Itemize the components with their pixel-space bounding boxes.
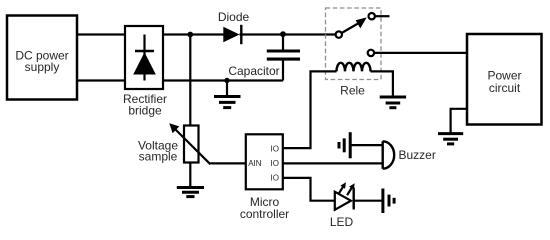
diode D1 — [223, 25, 241, 44]
svg-text:IO: IO — [271, 145, 279, 154]
wire rectifier top output — [163, 33, 224, 35]
node junction dot (rail ground tap) — [224, 78, 229, 83]
svg-text:LED: LED — [330, 215, 354, 229]
LED arrow 1 — [338, 187, 343, 194]
potentiometer (voltage sample) — [138, 123, 210, 186]
wire coil right to ground — [371, 71, 393, 96]
svg-text:Buzzer: Buzzer — [399, 148, 436, 162]
relay coil L1 — [337, 63, 371, 98]
buzzer BZ1 — [383, 141, 436, 168]
svg-text:IO: IO — [271, 159, 279, 168]
rectifier diode D (inside bridge) — [143, 35, 145, 81]
wire micro IO2 to buzzer — [283, 162, 382, 164]
node junction dot (capacitor tap) — [280, 31, 286, 37]
wire PSU bottom to rectifier bridge — [77, 79, 126, 81]
capacitor C1 — [228, 34, 300, 80]
svg-text:bridge: bridge — [128, 104, 162, 118]
DC power supply box — [7, 16, 77, 100]
svg-text:circuit: circuit — [489, 81, 521, 95]
rectifier bridge box — [123, 26, 167, 118]
relay dashed enclosure — [326, 8, 382, 80]
buzzer ground (rotated) — [339, 132, 350, 158]
ground (bottom rail) — [214, 81, 241, 108]
svg-text:Rele: Rele — [340, 84, 365, 98]
svg-text:Capacitor: Capacitor — [228, 64, 279, 78]
LED ground (rotated) — [383, 189, 394, 214]
ground (voltage sample) — [177, 188, 204, 197]
ground (relay coil) — [380, 97, 406, 108]
wire micro IO3 to LED — [283, 178, 335, 201]
wire ground to buzzer top terminal — [350, 144, 382, 146]
wire top node down to voltage sample — [189, 35, 191, 127]
LED D2 — [330, 182, 355, 229]
micro controller U1 box — [240, 134, 289, 221]
wire power circuit to ground — [451, 109, 467, 133]
wire LED to ground — [354, 200, 382, 202]
LED arrow 2 — [347, 188, 352, 195]
wire pot wiper to AIN — [210, 162, 246, 164]
node junction dot (pot tap) — [187, 32, 193, 38]
relay switch blade — [342, 17, 367, 33]
wire rectifier bottom rail — [163, 79, 283, 81]
relay switch NO contact — [369, 13, 375, 19]
svg-text:Diode: Diode — [218, 10, 250, 24]
relay switch common contact — [336, 31, 342, 37]
wire PSU top to rectifier bridge — [77, 33, 126, 35]
relay output contact — [368, 50, 374, 56]
Power circuit box — [467, 34, 542, 125]
svg-text:sample: sample — [139, 150, 178, 164]
wire relay contact to power circuit — [374, 52, 467, 54]
wire NO contact stub — [375, 15, 390, 17]
wire diode to switch — [240, 33, 337, 35]
svg-text:IO: IO — [271, 174, 279, 183]
svg-text:AIN: AIN — [248, 159, 262, 168]
ground (power circuit) — [438, 134, 463, 144]
svg-text:supply: supply — [25, 60, 60, 74]
svg-text:controller: controller — [240, 207, 289, 221]
wire coil left to micro IO1 — [283, 71, 337, 148]
